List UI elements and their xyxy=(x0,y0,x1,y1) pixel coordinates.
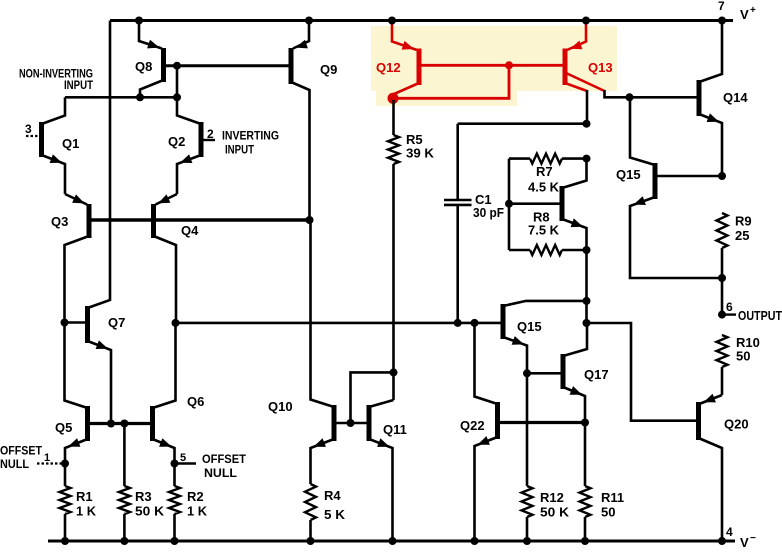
node Q11 collector junction xyxy=(390,368,398,376)
transistor Q7 xyxy=(85,306,90,343)
transistor Q15 middle xyxy=(501,304,506,339)
svg-text:Q20: Q20 xyxy=(724,417,749,432)
node R7 right junction xyxy=(583,155,591,163)
wire Q8-Q9 base line xyxy=(166,64,290,67)
wire Q17 base stub xyxy=(529,372,561,375)
resistor R3 xyxy=(123,424,126,487)
svg-text:Q10: Q10 xyxy=(268,399,293,414)
transistor Q9 xyxy=(289,48,294,84)
svg-text:INVERTING: INVERTING xyxy=(222,129,279,143)
svg-text:R1: R1 xyxy=(76,489,93,504)
svg-text:Q3: Q3 xyxy=(51,214,68,229)
node Q3 collector junction xyxy=(61,319,69,327)
svg-text:6: 6 xyxy=(726,300,733,314)
svg-text:5: 5 xyxy=(180,452,186,464)
capacitor C1 xyxy=(456,124,459,199)
wire Q7 base stub xyxy=(63,321,86,324)
wire Q13 collector to C1 node xyxy=(586,90,589,124)
transistor Q8 xyxy=(161,48,166,82)
node Q10-Q11 base junction xyxy=(347,419,355,427)
node Q17 emitter / R11 junction xyxy=(581,419,589,427)
svg-text:Q13: Q13 xyxy=(588,60,613,75)
transistor Q1 xyxy=(39,122,44,157)
resistor R8 xyxy=(509,249,530,252)
wire Q8 base-collector tie xyxy=(176,66,179,98)
svg-text:Q17: Q17 xyxy=(584,367,609,382)
svg-text:Q14: Q14 xyxy=(723,90,748,105)
transistor Q11 xyxy=(367,405,372,441)
svg-text:4.5 K: 4.5 K xyxy=(528,180,560,195)
wire input stage collector line xyxy=(65,96,177,99)
transistor Q5 xyxy=(85,406,90,441)
wire C1 top to Q13 collector node xyxy=(458,122,587,125)
svg-text:3: 3 xyxy=(25,122,32,136)
svg-text:R12: R12 xyxy=(540,490,564,505)
node R8 right junction xyxy=(583,246,591,254)
offset null pin 5 xyxy=(177,462,197,464)
transistor Q20 xyxy=(696,402,701,440)
svg-text:Q15: Q15 xyxy=(616,167,641,182)
resistor R11 xyxy=(584,423,587,487)
svg-text:INPUT: INPUT xyxy=(225,143,255,157)
svg-text:V: V xyxy=(740,7,749,22)
svg-text:7.5 K: 7.5 K xyxy=(528,223,560,238)
wire Q3-Q4 base to Q9 collector node xyxy=(91,218,310,221)
wire Q16 emitter node down to Q17 collector xyxy=(585,250,588,323)
wire Q12-Q13 base line xyxy=(421,64,563,67)
wire Q11 base-collector tie xyxy=(351,372,394,423)
transistor Q3 xyxy=(87,204,92,238)
highlight box behind Q12 Q13 xyxy=(371,26,617,91)
svg-text:R9: R9 xyxy=(735,214,752,229)
svg-text:50: 50 xyxy=(601,505,615,520)
wire R9 bottom to output xyxy=(721,278,724,315)
node C1 top junction xyxy=(583,120,591,128)
node C1 bottom junction xyxy=(454,319,462,327)
svg-text:Q1: Q1 xyxy=(62,136,79,151)
resistor R4 xyxy=(305,484,316,520)
pin 2 stub xyxy=(203,139,215,141)
svg-text:4: 4 xyxy=(726,525,733,539)
transistor Q16 vbe multiplier xyxy=(560,186,565,221)
svg-text:50: 50 xyxy=(736,349,750,364)
V+ rail xyxy=(110,19,733,22)
svg-text:OUTPUT: OUTPUT xyxy=(738,308,782,323)
svg-text:NULL: NULL xyxy=(204,466,237,480)
svg-text:R7: R7 xyxy=(536,164,553,179)
svg-text:Q7: Q7 xyxy=(108,315,125,330)
wire Q5-Q6 base line xyxy=(90,422,151,425)
node Q15 middle collector junction xyxy=(583,297,591,305)
wire Q12 base-collector tie xyxy=(393,65,509,98)
node offset null 1 junction xyxy=(61,460,69,468)
svg-text:R11: R11 xyxy=(601,490,624,505)
resistor R10 xyxy=(717,335,728,367)
offset null pin 1 xyxy=(37,462,63,464)
svg-text:R3: R3 xyxy=(135,489,152,504)
node input collector junctions xyxy=(136,93,144,101)
node Q12 collector xyxy=(388,93,399,104)
wire Q10-Q11 base line xyxy=(336,422,367,425)
svg-text:Q9: Q9 xyxy=(320,62,337,77)
svg-text:INPUT: INPUT xyxy=(64,78,94,92)
node top rail junctions xyxy=(135,17,143,25)
wire Q15 base to R9 top xyxy=(657,175,720,178)
wire Q20 base path xyxy=(587,323,696,421)
node Q12 base tie junction xyxy=(505,61,513,69)
transistor Q22 xyxy=(495,402,500,439)
svg-text:39 K: 39 K xyxy=(406,146,435,161)
svg-text:50 K: 50 K xyxy=(135,504,165,519)
svg-text:Q8: Q8 xyxy=(135,59,152,74)
transistor Q6 xyxy=(150,406,155,441)
svg-text:7: 7 xyxy=(718,0,725,13)
node offset null 5 junction xyxy=(171,460,179,468)
node output pin 6 xyxy=(718,311,726,319)
svg-text:Q4: Q4 xyxy=(181,223,199,238)
resistor R12 xyxy=(526,373,529,486)
svg-text:Q15: Q15 xyxy=(517,319,542,334)
node Q16 base junction xyxy=(505,200,513,208)
svg-text:30 pF: 30 pF xyxy=(473,205,504,220)
svg-text:Q2: Q2 xyxy=(168,134,185,149)
svg-text:Q5: Q5 xyxy=(55,420,72,435)
node bottom rail junctions xyxy=(61,537,69,545)
node Q4-Q6 collector junction xyxy=(172,319,180,327)
resistor R7 xyxy=(509,157,530,160)
svg-text:Q12: Q12 xyxy=(376,60,401,75)
wire R5 to Q11 collector xyxy=(392,164,395,400)
transistor Q14 xyxy=(697,80,702,116)
node R3 top junction xyxy=(120,420,128,428)
svg-text:−: − xyxy=(750,533,756,544)
node Q9 collector / current mirror xyxy=(306,216,314,224)
svg-text:R4: R4 xyxy=(324,488,341,503)
svg-text:25: 25 xyxy=(735,228,749,243)
svg-text:Q6: Q6 xyxy=(187,394,204,409)
transistor Q15 output xyxy=(653,163,658,199)
node Q7 emitter junction xyxy=(107,420,115,428)
svg-text:OFFSET: OFFSET xyxy=(202,452,247,466)
wire second stage input line xyxy=(176,322,502,325)
node Q14 base junction xyxy=(626,93,634,101)
svg-text:Q11: Q11 xyxy=(383,422,407,437)
node R9 bottom junction xyxy=(718,274,726,282)
V- rail xyxy=(48,540,735,543)
transistor Q4 xyxy=(151,204,156,238)
svg-text:1 K: 1 K xyxy=(76,504,97,519)
svg-text:1 K: 1 K xyxy=(187,504,208,519)
node Q15 emitter / Q17 base junction xyxy=(523,369,531,377)
wire R7-R8 junction to Q16 base xyxy=(508,159,511,250)
transistor Q10 xyxy=(332,405,337,441)
node R9 top junction xyxy=(718,172,726,180)
svg-text:Q22: Q22 xyxy=(460,418,485,433)
pin 3 stub xyxy=(26,135,39,137)
resistor R9 xyxy=(717,213,728,248)
transistor Q13 xyxy=(563,49,568,86)
resistor R1 xyxy=(64,464,67,487)
svg-text:R2: R2 xyxy=(187,489,204,504)
svg-text:2: 2 xyxy=(207,127,214,141)
transistor Q17 xyxy=(561,354,566,389)
svg-text:50 K: 50 K xyxy=(540,505,570,520)
resistor R2 xyxy=(173,464,176,487)
svg-text:V: V xyxy=(740,535,749,550)
svg-text:1: 1 xyxy=(44,452,50,464)
svg-text:OFFSET: OFFSET xyxy=(0,444,43,458)
node Q22 collector junction xyxy=(471,319,479,327)
resistor R5 xyxy=(392,100,395,135)
node Q17 collector junction xyxy=(583,319,591,327)
svg-text:NULL: NULL xyxy=(0,457,29,471)
wire Q13 collector 2 to Q14 base xyxy=(605,90,698,97)
transistor Q2 xyxy=(199,122,204,157)
svg-text:+: + xyxy=(750,5,756,16)
transistor Q12 xyxy=(417,49,422,86)
wire Q22 base to Q17 emitter xyxy=(500,421,585,424)
svg-text:5 K: 5 K xyxy=(324,507,346,522)
